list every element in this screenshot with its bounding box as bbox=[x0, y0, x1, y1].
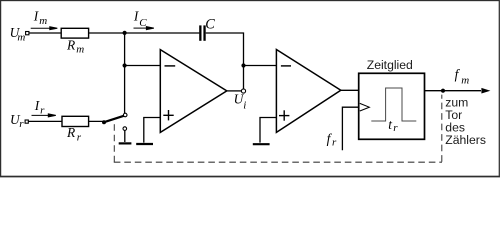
svg-text:R: R bbox=[66, 125, 75, 140]
svg-text:m: m bbox=[461, 75, 469, 87]
svg-text:r: r bbox=[393, 122, 398, 134]
svg-text:i: i bbox=[243, 100, 246, 112]
svg-text:m: m bbox=[17, 31, 25, 43]
svg-text:I: I bbox=[133, 9, 139, 24]
svg-text:t: t bbox=[388, 117, 392, 132]
svg-text:I: I bbox=[34, 98, 40, 113]
svg-text:m: m bbox=[39, 15, 47, 27]
svg-text:C: C bbox=[205, 17, 215, 33]
svg-text:Zählers: Zählers bbox=[445, 133, 486, 147]
svg-text:C: C bbox=[139, 17, 147, 29]
svg-text:r: r bbox=[77, 131, 82, 143]
svg-text:R: R bbox=[66, 38, 75, 53]
svg-text:Zeitglied: Zeitglied bbox=[367, 58, 413, 72]
svg-text:r: r bbox=[19, 118, 24, 130]
svg-text:m: m bbox=[76, 44, 84, 56]
svg-text:r: r bbox=[40, 105, 45, 117]
svg-text:r: r bbox=[332, 136, 337, 148]
svg-text:I: I bbox=[33, 8, 39, 23]
